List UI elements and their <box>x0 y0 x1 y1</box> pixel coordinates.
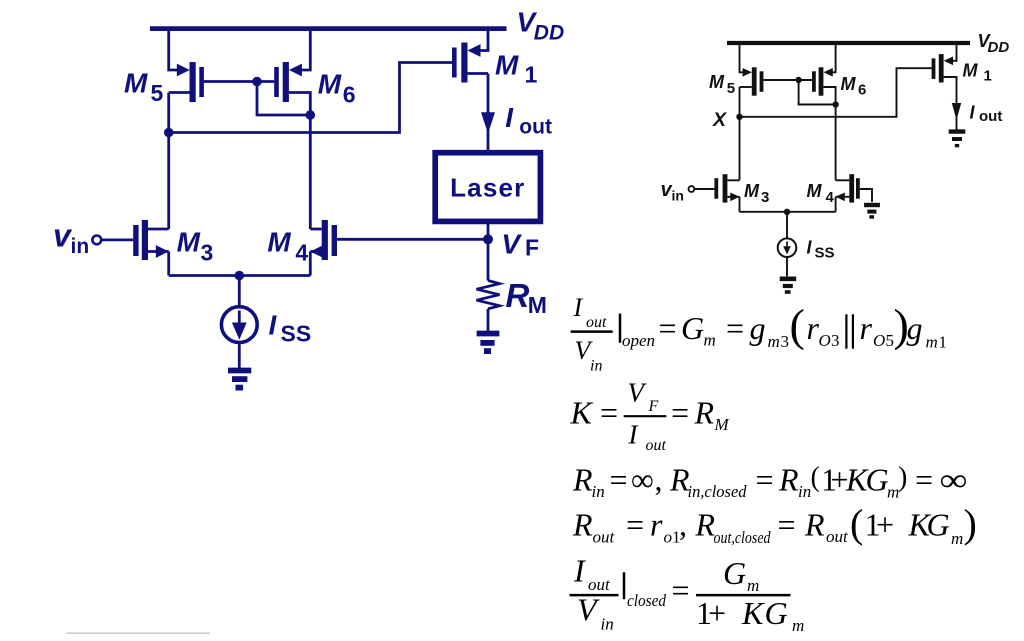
transistor M6 right <box>812 43 836 180</box>
svg-text:,: , <box>679 507 687 543</box>
transistor M6 <box>274 29 310 229</box>
wire X to M1 gate right <box>740 68 932 117</box>
wire M1 drain to laser <box>487 74 490 153</box>
svg-text:M: M <box>267 227 291 258</box>
label M3 right <box>744 181 769 206</box>
svg-text:(: ( <box>811 462 820 493</box>
svg-text:K: K <box>570 395 594 431</box>
resistor RM <box>477 239 500 331</box>
svg-text:in: in <box>672 188 684 204</box>
label VF <box>501 228 539 260</box>
wire ISS to ground <box>238 343 241 369</box>
wire tail to ISS <box>238 276 241 307</box>
svg-text:F: F <box>648 398 659 415</box>
svg-text:in: in <box>601 615 614 634</box>
svg-text:g: g <box>907 310 923 346</box>
svg-text:6: 6 <box>343 81 356 107</box>
transistor M4 right <box>836 174 860 212</box>
label VDD right <box>978 31 1010 56</box>
svg-text:out: out <box>979 108 1002 125</box>
svg-text:5: 5 <box>151 80 164 106</box>
transistor M3 right <box>714 174 739 212</box>
svg-text:(: ( <box>850 501 863 546</box>
svg-text:SS: SS <box>281 321 312 347</box>
svg-text:out: out <box>519 115 552 138</box>
svg-text:r: r <box>650 507 663 543</box>
svg-text:+: + <box>708 595 726 631</box>
terminal vin circle <box>92 236 101 245</box>
equation 5 fraction Iout over Vin closed <box>570 553 690 634</box>
svg-text:M: M <box>841 74 857 94</box>
bottom rule <box>67 632 211 634</box>
svg-text:out: out <box>826 527 849 546</box>
ground below RM <box>477 334 500 352</box>
wire tail <box>169 274 311 277</box>
svg-text:5: 5 <box>727 80 735 97</box>
wire M5 source to rail <box>169 29 178 70</box>
svg-text:in: in <box>590 358 602 375</box>
transistor M5 <box>169 62 204 102</box>
node VF dot <box>483 234 493 244</box>
svg-text:M: M <box>124 67 148 98</box>
wire M6 diode connection <box>257 82 310 116</box>
label vin right <box>661 179 684 204</box>
current source ISS <box>221 307 257 343</box>
svg-text:out: out <box>586 314 607 331</box>
svg-text:(: ( <box>790 299 805 350</box>
wire vin to M3 gate <box>101 238 133 241</box>
svg-text:G: G <box>681 310 704 346</box>
equation 3 Rin <box>572 462 968 502</box>
svg-text:=: = <box>778 507 796 543</box>
label M1 <box>495 50 538 88</box>
wire vin to M3 gate right <box>694 188 714 190</box>
label M1 right <box>963 60 992 84</box>
wire VF to M4 gate <box>337 238 488 241</box>
equation 1 evaluated-open bar <box>620 314 655 350</box>
svg-text:G: G <box>927 507 950 543</box>
svg-text:out: out <box>593 528 616 547</box>
svg-text:out: out <box>646 437 667 454</box>
svg-text:3: 3 <box>761 189 769 206</box>
svg-text:): ) <box>964 501 977 546</box>
node X dot right <box>736 114 742 120</box>
label RM <box>506 277 547 318</box>
svg-text:G: G <box>765 595 788 631</box>
svg-text:M: M <box>318 69 342 100</box>
svg-text:O: O <box>873 331 885 350</box>
svg-text:+: + <box>876 507 894 543</box>
svg-text:o: o <box>664 528 673 547</box>
svg-text:M: M <box>709 72 725 92</box>
wire VDD rail right <box>727 41 970 45</box>
label M4 <box>267 227 308 266</box>
equation 1 gm3 term <box>750 310 790 351</box>
svg-text:=: = <box>672 572 690 608</box>
label M5 right <box>709 72 735 97</box>
svg-text:M: M <box>495 50 519 81</box>
svg-text:m: m <box>926 333 938 352</box>
svg-text:G: G <box>723 555 746 591</box>
wire laser to VF <box>487 221 490 239</box>
equation 1 gm1 term <box>907 310 948 351</box>
svg-text:m: m <box>747 576 759 595</box>
label ISS <box>269 310 312 347</box>
wire tail right <box>740 211 836 213</box>
svg-text:out,closed: out,closed <box>714 528 771 547</box>
ground below Iout right <box>949 132 966 146</box>
equation 2 K equals VF over Iout equals RM <box>570 378 730 455</box>
svg-text:O: O <box>819 331 831 350</box>
svg-text:m: m <box>792 616 804 635</box>
svg-text:in: in <box>592 482 605 501</box>
svg-text:in,closed: in,closed <box>688 482 747 501</box>
svg-text:I: I <box>970 103 976 123</box>
svg-text:M: M <box>177 227 201 258</box>
label Iout right <box>970 103 1003 125</box>
svg-text:∞: ∞ <box>940 462 968 498</box>
svg-text:=: = <box>726 310 744 346</box>
equation 1 Gm equality <box>659 310 745 349</box>
svg-text:M: M <box>963 60 979 80</box>
wire tail to ISS right <box>786 212 788 239</box>
svg-text:I: I <box>573 293 584 322</box>
transistor M3 <box>133 220 169 276</box>
svg-text:g: g <box>750 310 766 346</box>
svg-text:,: , <box>655 462 663 498</box>
svg-text:closed: closed <box>627 591 666 610</box>
svg-text:∞: ∞ <box>631 462 654 498</box>
svg-text:3: 3 <box>201 240 214 266</box>
svg-text:open: open <box>622 331 655 350</box>
wire ISS to ground right <box>786 257 788 276</box>
equation 1 parenthesis ro3 parallel ro5 <box>790 299 909 350</box>
svg-text:=: = <box>659 310 677 346</box>
junction dot gates <box>252 77 262 87</box>
svg-text:X: X <box>712 109 727 131</box>
wire M5 drain to M3 right <box>739 87 741 180</box>
transistor M4 <box>310 220 337 276</box>
junction dot M6 drain right <box>832 101 838 107</box>
label M4 right <box>807 181 835 206</box>
svg-text:R: R <box>778 462 799 498</box>
svg-text:=: = <box>600 395 618 431</box>
wire VDD rail <box>150 26 507 31</box>
svg-text:I: I <box>573 553 586 589</box>
wire node X to M1 gate <box>169 63 452 133</box>
wire M4 gate to ground right <box>860 189 872 202</box>
ground at M4 gate right <box>864 205 880 217</box>
transistor M5 right <box>740 67 764 95</box>
label Iout <box>505 102 552 138</box>
svg-text:R: R <box>572 462 593 498</box>
svg-text:V: V <box>577 591 600 627</box>
svg-text:r: r <box>860 310 873 346</box>
svg-text:DD: DD <box>534 21 564 44</box>
svg-text:m: m <box>768 332 780 351</box>
svg-text:3: 3 <box>831 331 840 350</box>
terminal vin right <box>689 186 695 192</box>
ground below ISS <box>228 371 251 388</box>
svg-text:in: in <box>71 235 90 258</box>
svg-text:SS: SS <box>815 245 835 262</box>
junction dot tail <box>235 271 245 281</box>
label ISS right <box>807 238 835 262</box>
svg-text:I: I <box>628 420 640 450</box>
svg-text:M: M <box>744 181 760 201</box>
svg-text:M: M <box>714 415 730 434</box>
svg-text:=: = <box>915 462 933 498</box>
svg-text:R: R <box>804 507 825 543</box>
svg-text:G: G <box>866 462 889 498</box>
equation 1 fraction Iout over Vin <box>571 293 613 375</box>
svg-text:=: = <box>626 507 644 543</box>
wire M5 source to rail right <box>740 43 746 72</box>
svg-text:K: K <box>741 595 765 631</box>
wire M6 diode right <box>799 80 836 105</box>
label M6 right <box>841 74 867 99</box>
svg-text:m: m <box>951 529 963 548</box>
svg-text:R: R <box>506 277 530 314</box>
laser box <box>435 153 540 222</box>
svg-text:I: I <box>807 238 813 258</box>
svg-text:I: I <box>505 102 514 133</box>
current source ISS right <box>778 238 797 257</box>
svg-text:=: = <box>756 462 774 498</box>
svg-text:R: R <box>695 507 716 543</box>
junction dot tail right <box>784 209 790 215</box>
label vin <box>53 218 89 258</box>
node X junction dot <box>164 128 174 138</box>
equation 4 Rout <box>572 501 977 548</box>
svg-text:Laser: Laser <box>450 173 525 203</box>
svg-text:=: = <box>671 395 689 431</box>
svg-text:4: 4 <box>295 240 308 266</box>
ground below ISS right <box>780 279 797 292</box>
junction dot M6 drain <box>306 110 316 120</box>
svg-text:1: 1 <box>939 333 948 352</box>
label M6 <box>318 69 356 108</box>
svg-text:DD: DD <box>988 39 1010 56</box>
wire M5 drain to M3 drain <box>167 93 170 230</box>
svg-text:R: R <box>572 507 593 543</box>
svg-text:R: R <box>694 395 715 431</box>
svg-text:V: V <box>628 378 648 408</box>
transistor M1 <box>452 29 488 83</box>
svg-text:): ) <box>898 462 907 493</box>
svg-text:1: 1 <box>984 68 992 85</box>
svg-text:I: I <box>269 310 278 341</box>
svg-text:V: V <box>501 228 522 259</box>
svg-text:M: M <box>807 181 823 201</box>
label M3 <box>177 227 214 266</box>
svg-text:M: M <box>528 292 547 318</box>
svg-text:4: 4 <box>826 189 835 206</box>
label M5 <box>124 67 164 106</box>
svg-text:m: m <box>704 331 716 350</box>
equation 5 right fraction Gm over 1 plus KGm <box>696 555 804 635</box>
svg-text:1: 1 <box>525 61 538 87</box>
label VDD <box>517 7 565 45</box>
svg-text:3: 3 <box>781 332 790 351</box>
transistor M1 right <box>932 43 957 130</box>
svg-text:F: F <box>525 234 539 260</box>
svg-text:=: = <box>610 462 628 498</box>
junction dot gates right <box>795 77 801 83</box>
wire M5 gate to M6 gate right <box>763 79 812 81</box>
arrow Iout right <box>952 103 961 120</box>
wire M5 gate to M6 gate <box>204 80 274 83</box>
svg-text:in: in <box>798 482 811 501</box>
svg-text:6: 6 <box>858 82 866 99</box>
arrow Iout current <box>481 112 495 133</box>
